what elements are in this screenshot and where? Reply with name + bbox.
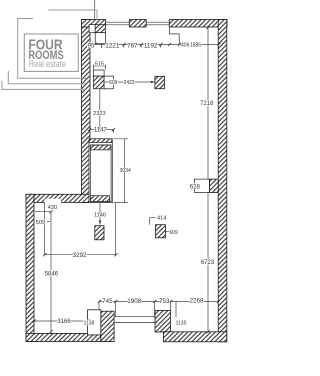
main vertical dim line right <box>207 28 209 332</box>
wall left-lower <box>26 194 34 341</box>
svg-text:2268: 2268 <box>189 297 204 304</box>
wall left-upper <box>82 20 91 203</box>
wall jog block 628 <box>209 179 218 192</box>
logo bracket lowest <box>2 81 86 89</box>
pier bay right <box>155 311 171 333</box>
window top 1 <box>105 20 169 323</box>
wall horizontal mid-left <box>26 194 90 202</box>
wall bottom-right <box>163 332 226 342</box>
5846 dim <box>35 212 51 334</box>
svg-text:1192: 1192 <box>144 43 158 50</box>
430 dim <box>44 202 46 255</box>
logo bracket lower <box>8 71 86 84</box>
arrowheads <box>151 81 155 83</box>
svg-text:3034: 3034 <box>120 168 131 174</box>
window bay bottom <box>114 317 155 323</box>
logo bracket middle <box>18 19 86 79</box>
svg-text:3166: 3166 <box>57 319 71 325</box>
dimension texts <box>36 42 215 326</box>
window top 2 <box>146 20 169 28</box>
logo bracket outer top <box>48 10 97 20</box>
assembly A2: white rect above + hatched block + white rect right <box>93 70 113 89</box>
1135 ext <box>175 302 177 318</box>
svg-text:Real estate: Real estate <box>29 59 66 69</box>
svg-text:1221: 1221 <box>105 43 120 50</box>
1147 dim <box>90 129 114 131</box>
wall top segment B <box>129 20 146 28</box>
svg-text:5846: 5846 <box>45 272 59 278</box>
628 label box <box>194 179 209 192</box>
3166 dim <box>34 320 88 322</box>
2268 dim <box>171 301 219 303</box>
assembly A1: white square + hatched block + white rect below <box>89 25 105 44</box>
svg-text:753: 753 <box>159 298 170 305</box>
top-right step outline <box>169 27 179 45</box>
2323 dim <box>99 89 101 130</box>
wall top segment C <box>169 20 227 28</box>
svg-text:609: 609 <box>170 230 179 236</box>
svg-text:628: 628 <box>190 184 201 190</box>
dimension lines <box>34 0 219 333</box>
logo spiral brackets <box>2 10 97 89</box>
svg-text:1138: 1138 <box>84 320 95 326</box>
bay dims 745/1908/753 <box>99 302 171 317</box>
column 2 (1146) <box>95 226 104 240</box>
svg-text:1147: 1147 <box>94 128 108 134</box>
slanted ticks on dims <box>33 26 221 334</box>
wall bottom-left <box>26 333 114 341</box>
3034 dim <box>114 139 129 203</box>
shaft / closet <box>89 139 112 203</box>
svg-text:7216: 7216 <box>200 101 214 107</box>
white notch for 430 <box>45 199 62 205</box>
column 1 (2422) <box>155 76 165 88</box>
1146 dim <box>99 203 101 225</box>
svg-text:406: 406 <box>181 42 190 48</box>
logo text <box>28 38 66 69</box>
svg-text:95: 95 <box>88 43 95 49</box>
414 bracket <box>150 218 156 225</box>
svg-text:609: 609 <box>109 80 118 86</box>
svg-text:745: 745 <box>102 298 113 305</box>
svg-text:1886: 1886 <box>190 42 201 48</box>
logo text box <box>24 34 78 71</box>
ext line to top edge <box>94 0 96 20</box>
svg-text:430: 430 <box>48 205 57 211</box>
pier bay left <box>101 311 114 341</box>
wall right <box>218 20 227 342</box>
svg-text:767: 767 <box>127 43 138 50</box>
svg-text:1135: 1135 <box>176 320 187 326</box>
609b leader <box>165 231 169 233</box>
svg-text:414: 414 <box>157 216 166 222</box>
svg-text:515: 515 <box>95 61 104 67</box>
column 3 (414/609) <box>156 225 166 238</box>
top dim line <box>90 44 219 46</box>
svg-text:2323: 2323 <box>93 111 105 117</box>
svg-text:6723: 6723 <box>201 260 215 266</box>
bay white rect <box>88 310 101 335</box>
515b dim <box>94 65 106 70</box>
svg-text:509: 509 <box>36 220 45 226</box>
svg-text:1146: 1146 <box>94 213 106 219</box>
svg-text:2422: 2422 <box>123 80 134 86</box>
svg-text:1908: 1908 <box>127 298 142 305</box>
609/2422 dim <box>105 81 155 83</box>
svg-text:3292: 3292 <box>72 252 87 259</box>
wall top segment A <box>82 20 106 28</box>
3292 dim <box>45 203 116 255</box>
509 arrow <box>35 220 40 222</box>
